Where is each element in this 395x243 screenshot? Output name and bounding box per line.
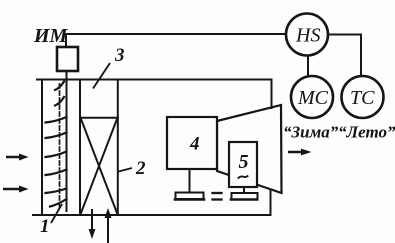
- svg-text:3: 3: [114, 45, 125, 66]
- heater 4 box: [167, 117, 217, 169]
- fan housing: [217, 105, 282, 193]
- damper blades: [46, 82, 67, 207]
- duct right wall: [117, 80, 119, 216]
- heat exchanger 2: top edge: [80, 117, 118, 119]
- inlet arrow lower: [3, 186, 29, 193]
- damper 1: dashed blade axis: [59, 84, 61, 210]
- svg-text:HS: HS: [295, 25, 320, 47]
- sensor 5 base: [232, 193, 258, 200]
- controller TC circle: [342, 76, 384, 118]
- controller MC circle: [291, 76, 333, 118]
- svg-text:“Зима”: “Зима”: [283, 123, 339, 142]
- heat exchanger 2: X diagonals: [81, 119, 117, 213]
- heater 4 base: [176, 193, 204, 200]
- outlet arrow: [288, 149, 312, 156]
- sensor 5 tilde: [239, 176, 248, 178]
- svg-text:5: 5: [239, 151, 249, 173]
- heater 4 base bottom hatch: [175, 198, 204, 201]
- supply up arrow: [105, 208, 112, 243]
- sensor 5 base bottom hatch: [231, 198, 258, 201]
- svg-text:“Лето”: “Лето”: [338, 123, 395, 142]
- sensor 5 stand stem: [243, 187, 245, 193]
- svg-text:2: 2: [135, 158, 146, 179]
- heater 4 stand stem: [189, 169, 191, 193]
- recirculation down arrow: [89, 209, 96, 239]
- wire: HS to MC: [307, 56, 309, 77]
- wire: control line from actuator to HS: [66, 33, 285, 35]
- duct middle wall: [79, 80, 81, 216]
- sensor 5 box: [229, 142, 257, 187]
- duct right vertical (enclosure): [271, 80, 273, 109]
- pointer to 3: [93, 63, 110, 89]
- duct top line: [37, 79, 272, 81]
- svg-text:4: 4: [189, 134, 200, 155]
- actuator rod: [66, 71, 68, 211]
- svg-text:ИМ: ИМ: [33, 25, 69, 47]
- svg-text:МС: МС: [297, 87, 329, 109]
- duct left wall: [41, 80, 43, 216]
- enclosure bottom-right vertical: [270, 191, 272, 215]
- wire: actuator stub: [65, 34, 67, 47]
- inlet arrow upper: [3, 149, 312, 243]
- controller HS circle: [286, 14, 328, 56]
- pointer to 1: [51, 204, 62, 223]
- pointer to 2: [119, 168, 133, 172]
- duct bottom line: [33, 214, 271, 216]
- actuator IM box: [57, 47, 78, 71]
- svg-text:1: 1: [40, 216, 50, 237]
- wire: HS to TC: [329, 35, 362, 77]
- svg-text:ТС: ТС: [350, 87, 375, 109]
- equals mark between stands: [213, 193, 222, 200]
